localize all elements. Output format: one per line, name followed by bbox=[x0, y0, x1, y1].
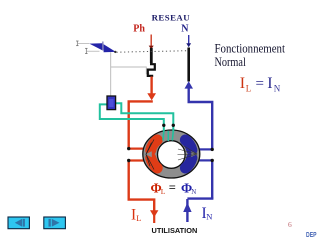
trip flag divider bbox=[102, 42, 104, 51]
trip flag left triangle bbox=[89, 43, 102, 50]
relay (trip solenoid) bbox=[107, 96, 116, 110]
terminal 2 leader wire bbox=[87, 50, 100, 52]
formula PhiL = PhiN bbox=[151, 180, 197, 196]
load current IL arrow bbox=[150, 210, 158, 217]
trip flag right triangle bbox=[104, 44, 116, 52]
trip coil (thermal element) bbox=[148, 62, 155, 76]
svg-text:N: N bbox=[274, 84, 281, 94]
svg-text:L: L bbox=[136, 213, 141, 223]
neutral wire blue: from lower tap down bbox=[211, 160, 213, 198]
phase wire red: down arrow bbox=[147, 93, 156, 100]
nav button previous bbox=[8, 217, 29, 229]
phase feed wire bbox=[149, 35, 154, 50]
sense winding wire (teal) left branch bbox=[100, 104, 164, 131]
junction node red upper bbox=[127, 147, 130, 150]
linkage rod to relay bbox=[110, 52, 112, 95]
phase wire red: to left and down to upper tap bbox=[129, 101, 153, 148]
primary winding L (red) upper lobe bbox=[151, 140, 158, 150]
phase wire red: tap lower to toroid bbox=[129, 159, 146, 161]
linkage rod to trip coil bbox=[111, 67, 150, 74]
breaker pole contact Ph bbox=[150, 48, 153, 63]
toroidal core bbox=[143, 130, 200, 178]
junction node red lower bbox=[127, 159, 130, 162]
phase wire red: stem below coil bbox=[150, 77, 152, 95]
svg-text:N: N bbox=[181, 24, 189, 35]
trip flag pivot dot bbox=[114, 51, 116, 53]
primary winding N (blue) upper lobe bbox=[185, 140, 192, 150]
neutral wire blue: up arrow bbox=[185, 81, 194, 88]
label IN bbox=[202, 205, 213, 222]
phase wire red: tap upper to toroid bbox=[129, 148, 146, 150]
svg-text:=: = bbox=[169, 180, 176, 194]
phase wire red: from lower tap down to load bbox=[129, 161, 155, 211]
svg-text:6: 6 bbox=[288, 220, 292, 229]
junction node blue lower bbox=[211, 159, 214, 162]
nav button next bbox=[44, 217, 66, 229]
breaker pole contact N bbox=[187, 48, 190, 82]
svg-text:L: L bbox=[246, 83, 252, 93]
neutral wire blue: tap lower to toroid bbox=[198, 159, 213, 161]
svg-text:RESEAU: RESEAU bbox=[152, 13, 191, 23]
svg-text:Fonctionnement: Fonctionnement bbox=[215, 41, 286, 55]
neutral wire blue: stem and path right/down to upper tap bbox=[188, 88, 213, 150]
load current IL stub bbox=[153, 211, 155, 223]
winding pinch notch left bbox=[145, 151, 152, 157]
svg-text:UTILISATION: UTILISATION bbox=[152, 226, 198, 235]
junction node teal left bbox=[162, 124, 165, 127]
label IL bbox=[131, 206, 142, 223]
primary winding L (red) lower lobe bbox=[151, 158, 158, 168]
svg-text:N: N bbox=[191, 188, 196, 196]
terminal mark 1 bbox=[76, 41, 79, 46]
return current IN arrow bbox=[183, 203, 191, 212]
terminal mark 2 bbox=[85, 48, 88, 53]
terminal 1 leader wire bbox=[78, 43, 89, 45]
svg-text:I: I bbox=[267, 75, 272, 92]
formula IL = IN bbox=[240, 75, 281, 93]
svg-text:L: L bbox=[161, 187, 166, 196]
toroid hole bbox=[158, 141, 186, 169]
sense winding wire (teal) right branch bbox=[116, 103, 174, 131]
svg-text:Ph: Ph bbox=[133, 24, 145, 35]
neutral wire blue: tap upper to toroid bbox=[198, 148, 213, 150]
svg-text:N: N bbox=[206, 211, 212, 221]
junction node teal right bbox=[172, 124, 175, 127]
svg-text:=: = bbox=[256, 76, 264, 92]
svg-text:Normal: Normal bbox=[215, 55, 247, 69]
neutral wire blue: bottom run to IN arrow bbox=[187, 199, 213, 222]
svg-text:DEP: DEP bbox=[306, 230, 317, 239]
mechanical linkage dashed line bbox=[117, 51, 189, 53]
winding turn lines left bbox=[146, 140, 154, 170]
winding pinch notch right bbox=[191, 151, 197, 157]
neutral feed wire bbox=[186, 35, 191, 47]
svg-text:I: I bbox=[240, 75, 245, 92]
winding turn lines right bbox=[178, 146, 198, 160]
sense winding turns (teal) bbox=[163, 131, 173, 141]
junction node blue upper bbox=[211, 148, 214, 151]
primary winding N (blue) lower lobe bbox=[185, 158, 192, 168]
